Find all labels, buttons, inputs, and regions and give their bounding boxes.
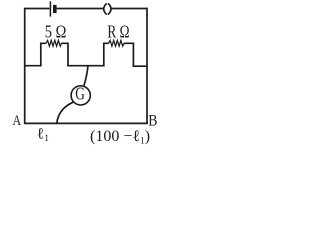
wire middle-right segment — [133, 65, 148, 67]
galvanometer G circle — [71, 86, 90, 105]
wire top-left segment — [25, 8, 50, 10]
resistor R1 zigzag element — [46, 40, 61, 46]
svg-text:(100 −ℓ1): (100 −ℓ1) — [90, 128, 150, 146]
battery cell E1 short thick plate — [53, 5, 57, 13]
svg-text:ℓ1: ℓ1 — [37, 125, 49, 144]
svg-text:R Ω: R Ω — [107, 23, 129, 42]
wire top-middle segment — [57, 8, 104, 10]
wire AB bottom — [24, 122, 148, 124]
svg-text:G: G — [75, 85, 85, 104]
battery cell E1 long plate — [49, 1, 51, 16]
wire left edge — [24, 8, 26, 124]
wire to galvanometer — [84, 66, 88, 87]
resistor R1 5-ohm bump — [41, 43, 68, 66]
svg-text:5 Ω: 5 Ω — [45, 21, 66, 42]
resistor R2 zigzag element — [109, 40, 125, 46]
wire middle-center segment — [67, 65, 104, 67]
svg-text:A: A — [13, 112, 22, 129]
jockey wire from galvanometer to bridge wire — [57, 102, 74, 123]
key K left arc — [104, 3, 107, 14]
wire right edge — [146, 8, 148, 124]
resistor R2 R-ohm bump — [104, 43, 134, 67]
wire middle-left segment — [25, 65, 41, 67]
key K right arc — [108, 3, 111, 14]
wire top-right segment — [111, 8, 147, 10]
